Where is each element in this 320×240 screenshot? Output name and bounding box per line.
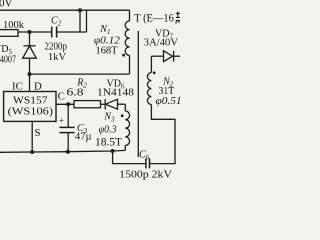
svg-text:3A/40V: 3A/40V xyxy=(144,38,179,49)
capacitor C6 plates xyxy=(145,158,147,168)
wire VD6 to N3 top xyxy=(124,104,126,111)
polarity dot N1 xyxy=(122,54,125,57)
wire C6 branch xyxy=(113,151,146,164)
diode VD7 xyxy=(164,51,181,62)
diode VD5 xyxy=(23,32,37,74)
wire C pin xyxy=(56,103,74,105)
polarity dot N3 xyxy=(121,114,124,117)
svg-text:168T: 168T xyxy=(96,46,118,57)
node C3 rail xyxy=(66,150,70,154)
node rail junction xyxy=(78,8,82,12)
wire S pin xyxy=(31,121,33,152)
CJK char fragment top right xyxy=(176,12,180,24)
wire node A row xyxy=(18,31,52,33)
svg-text:(WS106): (WS106) xyxy=(8,106,54,118)
svg-text:IC: IC xyxy=(12,80,23,92)
winding N1 xyxy=(125,10,129,74)
svg-text:47µ: 47µ xyxy=(75,132,92,143)
wire C6 to N2 bottom loop xyxy=(150,105,176,164)
capacitor C2 plates xyxy=(51,27,53,38)
node S rail xyxy=(30,150,34,154)
diode VD6 xyxy=(105,99,125,109)
wire R2 to VD6 xyxy=(101,103,106,105)
capacitor C3 plates xyxy=(59,126,74,128)
svg-text:φ0.51: φ0.51 xyxy=(156,95,181,107)
svg-text:1N4007: 1N4007 xyxy=(0,55,16,66)
svg-text:D: D xyxy=(34,81,42,93)
wire riser stub xyxy=(86,10,88,32)
polarity dot N2 xyxy=(153,71,156,74)
svg-text:T (E—16: T (E—16 xyxy=(134,13,174,25)
svg-text:+: + xyxy=(59,116,64,126)
wire D pin xyxy=(29,74,31,91)
IC box WS157 xyxy=(4,92,56,122)
resistor 100k body xyxy=(0,30,18,37)
svg-text:1N4148: 1N4148 xyxy=(97,87,134,99)
node A xyxy=(28,30,32,34)
wire drain node horizontal xyxy=(30,73,130,75)
node C xyxy=(66,102,70,106)
node C6 rail xyxy=(111,149,115,153)
transformer core xyxy=(137,31,139,157)
svg-text:φ0.3: φ0.3 xyxy=(99,125,117,136)
svg-text:0V: 0V xyxy=(0,0,13,10)
node D xyxy=(28,72,32,76)
winding N2 xyxy=(147,56,151,104)
svg-text:18.5T: 18.5T xyxy=(95,136,122,148)
svg-text:C: C xyxy=(58,90,65,102)
wire top rail xyxy=(0,9,130,11)
svg-text:2200p: 2200p xyxy=(45,42,68,53)
wire bottom rail xyxy=(0,150,125,152)
wire C2 riser xyxy=(79,10,81,32)
wire C3 bottom lead xyxy=(67,133,69,152)
wire C2 right lead xyxy=(57,31,87,33)
svg-text:100k: 100k xyxy=(3,20,25,31)
svg-text:1500p 2kV: 1500p 2kV xyxy=(119,169,172,181)
wire C3 branch xyxy=(67,104,69,127)
svg-text:6.8: 6.8 xyxy=(67,88,84,99)
winding N3 xyxy=(125,111,129,150)
svg-text:1kV: 1kV xyxy=(48,52,67,63)
svg-text:S: S xyxy=(35,127,41,139)
wire VD7 anode xyxy=(151,55,163,57)
resistor R2 body xyxy=(74,101,101,108)
